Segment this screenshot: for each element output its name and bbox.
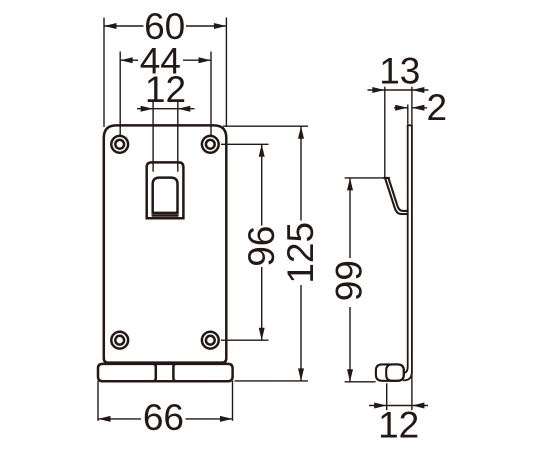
hole top-left <box>111 136 128 153</box>
side view foot outer profile <box>376 364 404 380</box>
hole bottom-right <box>202 332 219 349</box>
side view plate right face <box>404 125 412 380</box>
hole top-right <box>202 136 219 153</box>
dim 125 <box>223 126 321 381</box>
side view hook inner line <box>389 178 408 211</box>
dim 12 side <box>369 368 428 446</box>
side view plate left face <box>404 125 408 373</box>
front view plate outline <box>104 125 227 362</box>
dim 13 <box>368 51 429 178</box>
base divider left <box>153 364 156 381</box>
svg-text:99: 99 <box>328 260 369 301</box>
dim 99 <box>328 178 384 382</box>
dim 12 <box>137 69 195 172</box>
dim 2 <box>394 87 447 128</box>
svg-text:125: 125 <box>280 222 321 284</box>
dim 66 <box>98 381 233 438</box>
slot outer opening <box>147 162 184 218</box>
side view hook outer line <box>385 178 408 214</box>
base plate outline <box>98 364 233 381</box>
slot inner tab <box>153 178 178 213</box>
tab fold line <box>153 214 178 217</box>
svg-text:2: 2 <box>427 87 448 128</box>
dim 60 <box>104 6 226 127</box>
side view foot inner profile <box>386 364 404 380</box>
dim 96 <box>221 144 282 340</box>
svg-text:12: 12 <box>145 69 186 110</box>
side view plate top edge <box>408 124 412 126</box>
dim 44 <box>120 41 211 136</box>
svg-text:66: 66 <box>143 397 184 438</box>
svg-text:96: 96 <box>241 226 282 267</box>
hole bottom-left <box>111 332 128 349</box>
svg-text:12: 12 <box>378 405 419 446</box>
svg-text:13: 13 <box>379 51 420 92</box>
side view hook top edge <box>384 177 389 179</box>
base divider right <box>173 364 176 381</box>
